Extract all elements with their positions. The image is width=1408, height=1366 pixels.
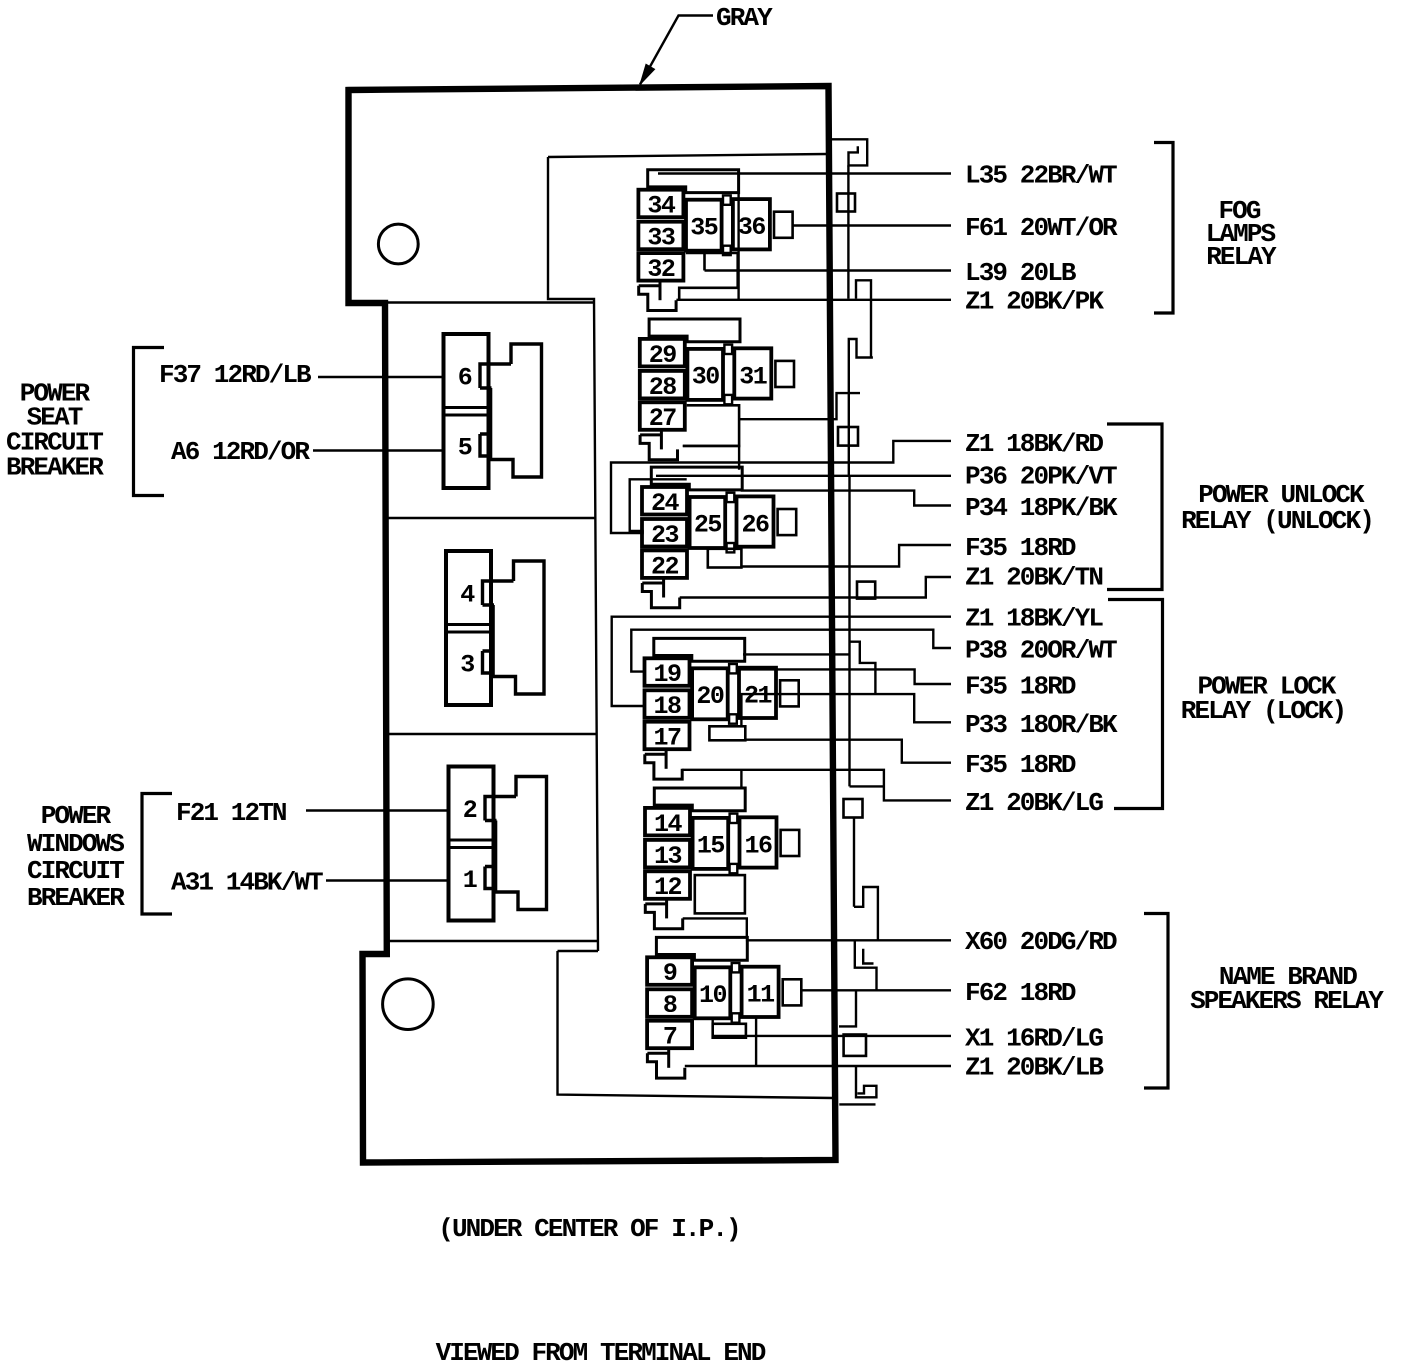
inner shroud line group 24-26	[630, 479, 687, 531]
mounting bar above group spare A	[649, 319, 740, 342]
svg-text:21: 21	[744, 682, 772, 711]
bracket power seat	[134, 348, 165, 496]
svg-text:25: 25	[694, 511, 722, 540]
svg-text:8: 8	[663, 991, 677, 1020]
svg-text:36: 36	[738, 213, 766, 242]
ground bus jumper over Z1 wire	[856, 280, 871, 298]
lower bracket below cavity 35	[679, 253, 738, 300]
svg-text:RELAY (LOCK): RELAY (LOCK)	[1181, 696, 1345, 726]
ground bus segment 2	[870, 299, 872, 358]
ground pin below cavity 32	[659, 281, 662, 301]
svg-text:18: 18	[653, 692, 681, 721]
ground pin below cavity 22	[662, 578, 665, 598]
ground pin below cavity 12	[665, 899, 668, 919]
svg-text:12: 12	[654, 873, 682, 902]
wire F35 18RD (lock)	[745, 740, 951, 763]
svg-text:F21 12TN: F21 12TN	[176, 798, 286, 828]
index tab top between 25 and 26	[727, 493, 735, 502]
mounting foot below group name brand speakers	[647, 1053, 684, 1078]
svg-text:16: 16	[744, 831, 772, 860]
svg-text:29: 29	[649, 341, 677, 370]
cavity 4 key tab	[483, 581, 514, 605]
wire leader A6 to cavity 5	[313, 449, 444, 451]
junction block outer housing (thick outline)	[349, 86, 836, 1163]
bar feed wire group 19-21	[743, 653, 850, 655]
relay cavity 15 box	[693, 818, 729, 869]
mounting bar above group power unlock	[651, 467, 742, 490]
bracket power lock relay	[1108, 600, 1163, 809]
svg-text:RELAY: RELAY	[1206, 242, 1277, 272]
relay cavity 16 box	[740, 817, 777, 867]
svg-text:Z1 20BK/LB: Z1 20BK/LB	[965, 1052, 1104, 1082]
terminal stub right of 36	[774, 212, 793, 238]
svg-text:P34 18PK/BK: P34 18PK/BK	[965, 493, 1118, 523]
relay connector group name brand speakers: cavity boxes 9/8/7	[647, 957, 692, 985]
wire leader F37 to cavity 6	[318, 376, 444, 378]
ground bus branch to P33 row	[850, 642, 876, 694]
ground bus segment 4	[853, 818, 855, 907]
keyway block for cavities 6/5	[491, 344, 542, 477]
wire L35 22BR/WT	[658, 172, 951, 174]
mounting hole (bottom)	[383, 979, 434, 1030]
bracket power windows	[142, 794, 172, 915]
relay cavity 10 box	[695, 967, 731, 1018]
wire X60 20DG/RD	[746, 939, 951, 941]
svg-text:33: 33	[647, 224, 675, 253]
svg-text:17: 17	[653, 724, 681, 753]
relay cavity 31 box	[734, 348, 771, 398]
svg-text:2: 2	[463, 796, 477, 825]
svg-text:9: 9	[663, 959, 677, 988]
ground chain wire from group 29-31 bracket to edge	[739, 393, 860, 419]
wire F35 18RD (unlock)	[741, 545, 951, 567]
svg-text:13: 13	[654, 842, 682, 871]
ground bus hook joint 2	[854, 887, 878, 941]
ground bus tail to edge	[839, 991, 856, 1027]
svg-text:7: 7	[663, 1023, 677, 1052]
mounting hole (top)	[378, 224, 418, 264]
pin lead from cavity 11 down	[755, 1017, 757, 1066]
relay cavity 35 box	[686, 200, 722, 251]
relay cavity 30 box	[687, 349, 723, 400]
mounting bar above group spare B	[654, 788, 745, 811]
relay connector group spare A: cavity boxes 29/28/27	[640, 339, 685, 367]
terminal stub right of 16	[781, 830, 800, 856]
pin lead from cavity 35 to L39 wire	[703, 253, 706, 271]
svg-text:26: 26	[741, 510, 769, 539]
wire F62 18RD	[802, 989, 951, 991]
alignment square 5	[857, 582, 875, 599]
svg-text:P38 20OR/WT: P38 20OR/WT	[965, 636, 1117, 666]
link group 19-21 foot to next bar	[740, 770, 742, 789]
svg-text:32: 32	[647, 255, 675, 284]
cavity 1 key tab	[485, 867, 497, 889]
link bar to Z1 wire	[737, 193, 739, 300]
svg-text:L35 22BR/WT: L35 22BR/WT	[965, 161, 1117, 191]
svg-text:Z1 20BK/LG: Z1 20BK/LG	[965, 788, 1103, 818]
svg-text:19: 19	[653, 660, 681, 689]
svg-text:28: 28	[649, 373, 677, 402]
relay cavity 26 box	[737, 496, 774, 546]
relay cavity 20 box	[692, 668, 728, 719]
svg-text:BREAKER: BREAKER	[6, 453, 104, 483]
index tab top between 35 and 36	[723, 195, 731, 204]
circuit breaker cavity block 6/5	[444, 334, 489, 488]
lower bracket below cavity 25	[708, 549, 742, 568]
svg-text:P36 20PK/VT: P36 20PK/VT	[965, 462, 1117, 492]
relay connector group power unlock: cavity boxes 24/23/22	[642, 487, 687, 515]
circuit breaker cavity block 2/1	[449, 767, 494, 921]
svg-text:22: 22	[651, 552, 679, 581]
svg-text:30: 30	[692, 363, 720, 392]
svg-text:4: 4	[460, 581, 475, 610]
mounting foot below group power lock	[645, 754, 682, 779]
svg-text:F35 18RD: F35 18RD	[965, 750, 1076, 780]
svg-text:F37 12RD/LB: F37 12RD/LB	[159, 360, 312, 390]
index tab bottom between 35 and 36	[723, 246, 731, 255]
mounting foot below group spare B	[645, 904, 682, 929]
terminal stub right of 31	[775, 361, 794, 387]
ground bus segment 1	[847, 165, 849, 298]
bracket fog lamps relay	[1154, 143, 1173, 314]
svg-text:15: 15	[697, 832, 725, 861]
mounting foot below group power unlock	[642, 583, 679, 608]
svg-text:23: 23	[651, 521, 679, 550]
mounting bar above group name brand speakers	[656, 937, 747, 960]
wire Z1 20BK/LG	[682, 770, 951, 801]
svg-text:27: 27	[649, 404, 677, 433]
inner connector panel outline	[548, 154, 833, 1098]
svg-text:10: 10	[699, 981, 727, 1010]
wire P36 20PK/VT	[656, 475, 951, 477]
wire leader F21 to cavity 2	[306, 809, 449, 811]
terminal stub right of 21	[780, 680, 799, 706]
svg-text:20: 20	[696, 682, 724, 711]
svg-text:F35 18RD: F35 18RD	[965, 672, 1076, 702]
svg-text:F62 18RD: F62 18RD	[965, 978, 1076, 1008]
svg-text:Z1 20BK/PK: Z1 20BK/PK	[965, 287, 1104, 317]
wire P33 18OR/BK	[741, 694, 951, 726]
svg-text:RELAY (UNLOCK): RELAY (UNLOCK)	[1181, 506, 1373, 536]
cavity 5 key tab	[480, 434, 492, 456]
svg-text:CIRCUIT: CIRCUIT	[27, 856, 124, 886]
svg-text:L39 20LB: L39 20LB	[965, 258, 1077, 288]
mounting bar above group power lock	[654, 638, 745, 661]
wire Z1 20BK/LB	[685, 1065, 951, 1067]
index tab bottom between 20 and 21	[729, 714, 737, 723]
relay connector group fog lamps: cavity boxes 34/33/32	[638, 190, 683, 218]
wire Z1 20BK/TN	[680, 577, 951, 598]
mounting bar above group fog lamps	[648, 170, 739, 193]
relay cavity 25 box	[690, 497, 726, 548]
cavity 2 key tab	[485, 797, 516, 821]
cavity 3 key tab	[483, 651, 495, 673]
index tab top between 10 and 11	[732, 963, 740, 972]
keyway block for cavities 4/3	[493, 561, 544, 694]
lower bracket below cavity 30	[683, 405, 739, 446]
alignment square 4	[844, 1035, 866, 1056]
svg-text:X60 20DG/RD: X60 20DG/RD	[965, 927, 1117, 957]
shroud outline and wire Z1 18BK/RD	[611, 441, 951, 533]
wire leader A31 to cavity 1	[326, 879, 449, 881]
svg-text:1: 1	[463, 866, 477, 895]
index tab top between 15 and 16	[730, 814, 738, 823]
ground pin below cavity 7	[667, 1048, 670, 1068]
svg-text:5: 5	[458, 434, 472, 463]
inner shroud and wire P38 20OR/WT	[631, 630, 951, 672]
wire P34 18PK/BK	[741, 491, 951, 506]
svg-text:POWER: POWER	[41, 801, 112, 831]
index tab top between 20 and 21	[729, 664, 737, 673]
pin lead cavity 10 and wire X1 16RD/LG	[713, 1017, 951, 1036]
relay connector group spare B: cavity boxes 14/13/12	[645, 808, 690, 836]
lower bracket below cavity 20	[709, 726, 745, 740]
svg-text:X1 16RD/LG: X1 16RD/LG	[965, 1023, 1103, 1053]
index tab bottom between 15 and 16	[730, 864, 738, 873]
ground bus hook joint 3	[855, 941, 877, 991]
svg-text:Z1 18BK/RD: Z1 18BK/RD	[965, 429, 1103, 459]
svg-text:BREAKER: BREAKER	[27, 883, 125, 913]
ground pin below cavity 17	[665, 749, 668, 769]
relay cavity 11 box	[742, 967, 779, 1017]
mounting foot below group spare A	[640, 435, 677, 460]
svg-text:6: 6	[458, 364, 472, 393]
svg-text:35: 35	[690, 213, 718, 242]
wire L39 20LB	[705, 269, 952, 271]
svg-text:Z1 18BK/YL: Z1 18BK/YL	[965, 604, 1103, 634]
alignment square 2	[838, 427, 858, 446]
bracket name brand speakers relay	[1144, 914, 1168, 1089]
relay cavity 21 box	[739, 668, 776, 718]
svg-text:P33 18OR/BK: P33 18OR/BK	[965, 710, 1118, 740]
svg-text:(UNDER CENTER OF I.P.): (UNDER CENTER OF I.P.)	[438, 1214, 739, 1244]
index tab bottom between 10 and 11	[732, 1013, 740, 1022]
wire F35 18RD (lock feed)	[736, 669, 951, 684]
ground bus tee into Z1 LG step	[850, 785, 884, 787]
svg-text:24: 24	[651, 489, 680, 518]
svg-text:A6 12RD/OR: A6 12RD/OR	[171, 437, 310, 467]
relay connector group power lock: cavity boxes 19/18/17	[645, 658, 690, 686]
svg-text:14: 14	[654, 810, 683, 839]
left cavity column frame	[386, 303, 598, 942]
svg-text:F61 20WT/OR: F61 20WT/OR	[965, 213, 1118, 243]
bracket power unlock relay	[1107, 424, 1162, 590]
svg-text:34: 34	[647, 192, 676, 221]
retaining clip bottom	[839, 1066, 876, 1105]
svg-text:A31 14BK/WT: A31 14BK/WT	[171, 868, 323, 898]
svg-text:31: 31	[739, 362, 767, 391]
alignment square 3	[844, 799, 863, 818]
svg-text:VIEWED FROM TERMINAL END: VIEWED FROM TERMINAL END	[436, 1338, 766, 1366]
mounting foot below group fog lamps	[639, 286, 676, 311]
ground bus segment 3	[848, 476, 850, 786]
svg-text:GRAY: GRAY	[716, 3, 773, 33]
link group 29-31 foot to next bar	[683, 446, 739, 470]
ground pin below cavity 27	[660, 430, 663, 450]
wire F61 20WT/OR	[793, 224, 951, 226]
index tab bottom between 30 and 31	[724, 395, 732, 404]
ground bus hook joint 1	[849, 339, 873, 476]
svg-text:Z1 20BK/TN: Z1 20BK/TN	[965, 563, 1102, 593]
retaining clip top	[831, 139, 867, 165]
alignment square 1	[837, 194, 855, 212]
lower bracket below cavity 15	[695, 875, 745, 913]
svg-text:WINDOWS: WINDOWS	[27, 829, 124, 859]
link group 14-16 foot to next bar	[683, 918, 747, 938]
wire Z1 20BK/PK	[676, 299, 951, 301]
index tab bottom between 25 and 26	[727, 543, 735, 552]
terminal stub right of 11	[783, 979, 802, 1005]
svg-text:3: 3	[460, 651, 474, 680]
relay cavity 36 box	[733, 199, 770, 249]
svg-text:11: 11	[747, 981, 775, 1010]
keyway block for cavities 2/1	[496, 777, 547, 910]
svg-text:F35 18RD: F35 18RD	[965, 533, 1076, 563]
shroud outline and wire Z1 18BK/YL	[612, 617, 951, 706]
circuit breaker cavity block 4/3	[446, 551, 491, 705]
index tab top between 30 and 31	[724, 345, 732, 354]
svg-text:SPEAKERS RELAY: SPEAKERS RELAY	[1190, 986, 1384, 1016]
lower bracket below cavity 10	[713, 1024, 746, 1038]
cavity 6 key tab	[480, 364, 511, 388]
terminal stub right of 26	[778, 509, 797, 535]
